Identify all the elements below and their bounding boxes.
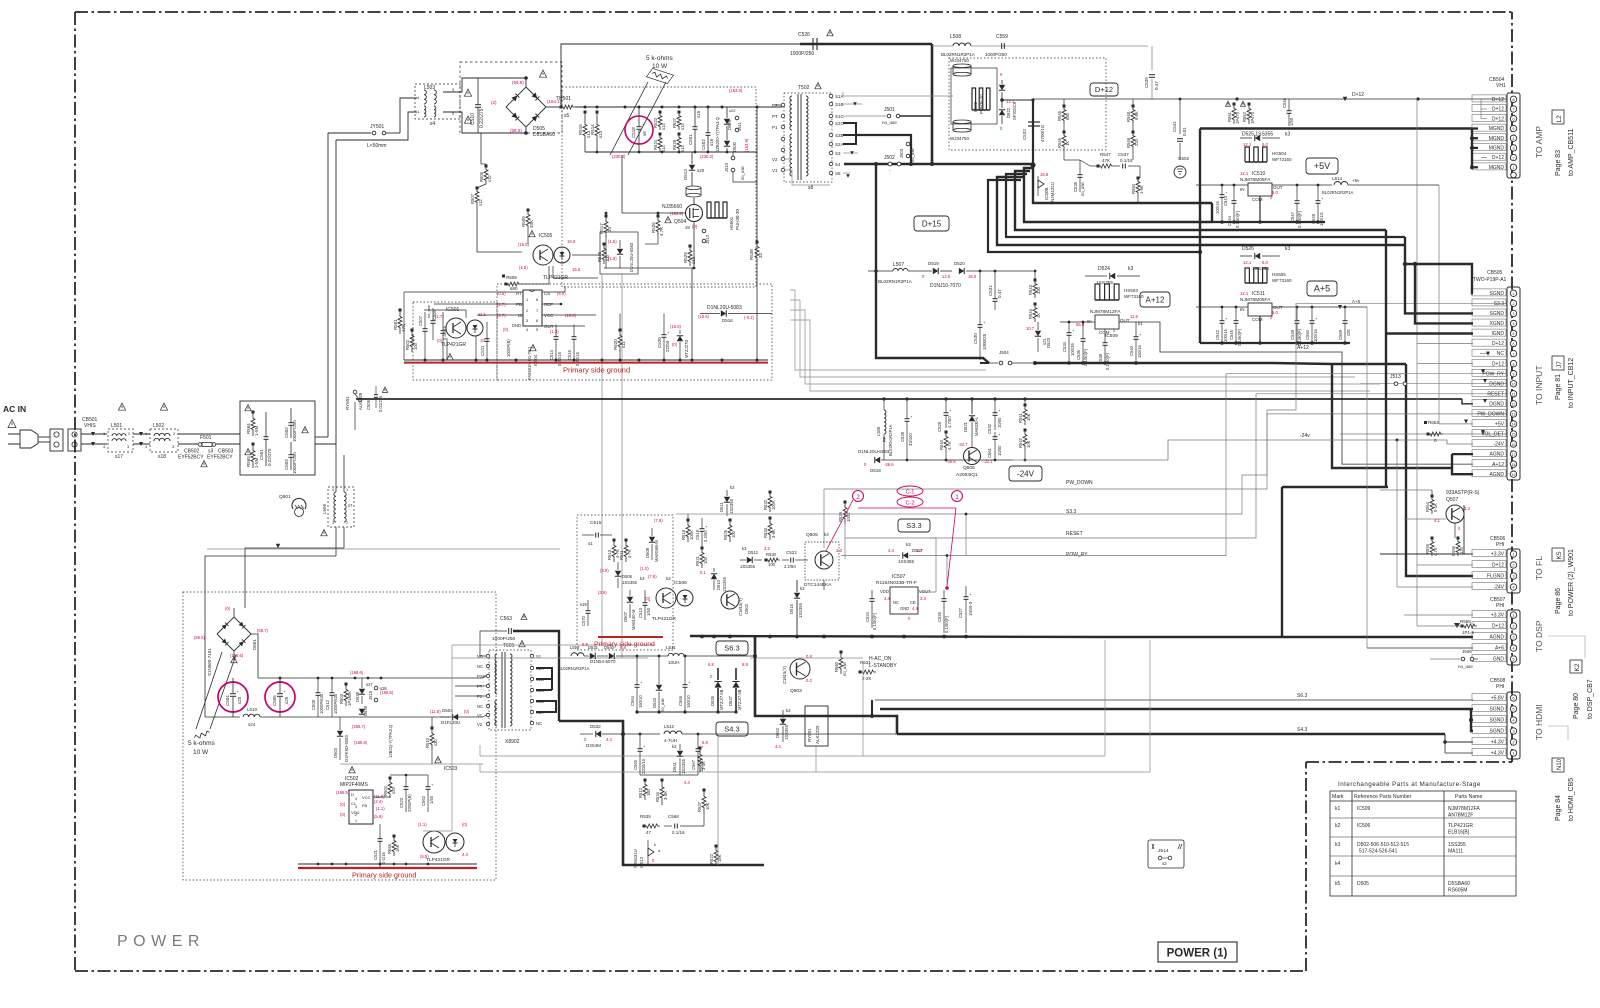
svg-text:NC: NC	[1497, 351, 1505, 357]
svg-text:12.1: 12.1	[1243, 260, 1252, 265]
svg-text:C544: C544	[1227, 215, 1232, 226]
resistor R502 100	[410, 330, 414, 352]
thick bus to bottom	[559, 721, 764, 865]
svg-text:C521: C521	[373, 849, 378, 860]
capacitor C534 100/35	[1067, 332, 1072, 334]
diode D503 D1FK6D-5083	[337, 731, 343, 736]
svg-text:NJM431U: NJM431U	[633, 849, 638, 868]
pin wires IC504	[404, 291, 523, 293]
resistor R511 4.7K	[624, 540, 628, 562]
svg-text:VOUT: VOUT	[919, 589, 931, 594]
capacitor C539 0.47	[1151, 46, 1153, 70]
svg-text:0.1: 0.1	[700, 570, 706, 575]
svg-text:15: 15	[1512, 433, 1516, 437]
svg-text:4.7/50: 4.7/50	[947, 416, 952, 428]
svg-text:3.3: 3.3	[920, 596, 926, 601]
resistor R555 4.7K	[1430, 538, 1434, 556]
svg-text:S6.3: S6.3	[1297, 693, 1308, 699]
svg-text:(5.9): (5.9)	[420, 854, 429, 859]
svg-text:(2): (2)	[491, 100, 497, 105]
svg-text:R514: R514	[590, 124, 595, 135]
thick vertical x876 loop	[876, 164, 989, 363]
magenta link line	[858, 507, 956, 509]
wire A+12 rail	[1060, 321, 1095, 323]
wire thick x623 connects	[621, 732, 625, 736]
staircase net PW_DOWN	[823, 489, 825, 548]
wires S3.3 section	[687, 514, 689, 520]
svg-text:100K: 100K	[689, 530, 694, 540]
svg-text:(1.9): (1.9)	[608, 256, 617, 261]
svg-text:680: 680	[1065, 112, 1070, 120]
cylinder NJ35660	[686, 186, 701, 190]
svg-text:S5: S5	[835, 171, 841, 176]
svg-text:R544: R544	[1028, 308, 1033, 319]
svg-text:(166.6): (166.6)	[380, 690, 394, 695]
capacitor C552 s16	[706, 132, 711, 134]
wire D601 outputs	[233, 608, 235, 617]
dotted box standby section	[183, 592, 496, 880]
thick MGND bus y128 to CB504	[1200, 127, 1472, 129]
svg-text:k5: k5	[1335, 881, 1341, 887]
svg-text:s4: s4	[430, 121, 436, 127]
diode D529 s22	[724, 119, 730, 124]
svg-text:R504: R504	[383, 785, 388, 796]
svg-text:NJM431U: NJM431U	[1050, 182, 1055, 202]
svg-text:+4.3V: +4.3V	[1491, 751, 1505, 757]
svg-text:R513: R513	[607, 549, 612, 560]
svg-text:R551: R551	[1227, 111, 1232, 122]
jumper J503 no_use	[906, 142, 910, 146]
svg-text:5 k-ohms: 5 k-ohms	[188, 740, 215, 747]
svg-text:AC IN: AC IN	[3, 404, 26, 414]
wires V1 V2	[785, 152, 790, 159]
svg-text:R564: R564	[246, 423, 251, 434]
svg-text:(255.7): (255.7)	[352, 724, 366, 729]
svg-text:TLP421GR: TLP421GR	[652, 616, 677, 622]
svg-text:MGND: MGND	[1489, 126, 1505, 132]
resistor R524 s14	[658, 134, 662, 152]
resistor R554 0-1K	[1430, 496, 1434, 514]
capacitor C503 1000P/250	[289, 454, 294, 456]
T502 left pins	[781, 103, 785, 107]
svg-text:10/50: 10/50	[997, 445, 1002, 456]
svg-text:R509: R509	[521, 216, 526, 227]
wires T601 primary	[483, 676, 486, 678]
capacitor C549 100/1G	[1316, 200, 1321, 202]
svg-text:12.1: 12.1	[1240, 171, 1249, 176]
svg-text:R537: R537	[697, 801, 702, 812]
wire S3.3 net	[930, 515, 960, 517]
resistor R519 100K	[686, 520, 690, 542]
svg-text:k: k	[654, 842, 656, 847]
svg-text:C566: C566	[678, 695, 683, 706]
svg-text:SGND: SGND	[1490, 718, 1505, 724]
svg-text:to AMP_CB511: to AMP_CB511	[1568, 129, 1575, 176]
svg-text:C552: C552	[701, 139, 706, 150]
svg-text:680: 680	[510, 286, 518, 291]
svg-text:100/16: 100/16	[1223, 329, 1228, 342]
svg-text:IN: IN	[1240, 307, 1245, 312]
svg-text:D+12: D+12	[1492, 563, 1504, 569]
resistor R549 220	[1131, 132, 1135, 150]
svg-text:TO HDMI: TO HDMI	[1534, 704, 1544, 740]
DGND arrows	[1481, 370, 1485, 374]
svg-text:-32.7: -32.7	[958, 442, 968, 447]
svg-text:(230.3): (230.3)	[700, 154, 714, 159]
svg-text:C514: C514	[549, 349, 554, 360]
svg-text:D533: D533	[652, 697, 657, 708]
resistor R540 4.7K	[944, 432, 948, 452]
capacitor C559 1000P/250	[1001, 43, 1003, 49]
svg-text:EYF52BCY: EYF52BCY	[207, 455, 233, 461]
jumper J501 no_use line	[843, 115, 886, 117]
CB507 pin 2 D+12	[1510, 623, 1516, 629]
svg-text:4.4: 4.4	[462, 852, 468, 857]
svg-text:S4.3: S4.3	[724, 725, 739, 734]
svg-text:3: 3	[1513, 312, 1515, 316]
svg-text:J7: J7	[1556, 361, 1563, 368]
svg-text:(1.1): (1.1)	[418, 822, 427, 827]
boxed label D+15	[914, 216, 949, 231]
svg-text:(0): (0)	[340, 802, 346, 807]
svg-text:NC: NC	[477, 704, 483, 709]
svg-text:s27: s27	[366, 682, 373, 687]
svg-text:Reference Parts Number: Reference Parts Number	[1354, 794, 1412, 800]
resistor R538 33	[755, 242, 759, 262]
capacitor C512 1000P/630	[330, 692, 335, 694]
svg-text:s11: s11	[621, 341, 626, 348]
svg-text:33K: 33K	[529, 220, 534, 228]
svg-text:TLP421GR: TLP421GR	[441, 342, 466, 348]
svg-text:WJ34750: WJ34750	[950, 58, 970, 63]
svg-text:REF: REF	[544, 302, 553, 307]
svg-text:6: 6	[1513, 342, 1515, 346]
resistor R628 s14	[677, 134, 681, 152]
svg-text:D+12: D+12	[1492, 341, 1504, 347]
magenta circle capacitor C505 s25	[265, 682, 295, 712]
svg-text:J510: J510	[724, 162, 729, 172]
svg-text:Primary side ground: Primary side ground	[352, 871, 416, 880]
svg-text:6.8: 6.8	[708, 662, 714, 667]
svg-text:C524: C524	[865, 611, 870, 622]
svg-text:R554: R554	[1425, 501, 1430, 512]
svg-text:L508: L508	[950, 34, 961, 40]
svg-text:-24V: -24V	[1493, 585, 1504, 591]
svg-text:AN78M12F: AN78M12F	[1448, 813, 1473, 819]
svg-text:1ZB200-Y(TPA3.Q: 1ZB200-Y(TPA3.Q	[715, 116, 720, 152]
svg-text:-24V: -24V	[1017, 469, 1035, 478]
svg-text:R655: R655	[387, 843, 392, 854]
wire x757 vertical	[756, 107, 758, 242]
long bus y399	[356, 398, 1462, 400]
wire AC to D601	[205, 556, 336, 618]
svg-text:BL02RN1R2P1A: BL02RN1R2P1A	[878, 279, 912, 284]
resistor R503 1P180K	[344, 684, 348, 706]
resistor R543 330	[1033, 280, 1037, 298]
svg-text:2: 2	[1513, 302, 1515, 306]
svg-text:J504: J504	[999, 350, 1009, 355]
svg-text:4: 4	[355, 797, 357, 801]
nested elbow thin wires left of D+15	[790, 290, 986, 370]
svg-text:3.3: 3.3	[916, 548, 922, 553]
svg-text:2-2K: 2-2K	[862, 676, 872, 681]
svg-text:IC507: IC507	[892, 574, 906, 580]
capacitor C508 1000P/630	[316, 692, 321, 694]
svg-text:C545: C545	[1229, 329, 1234, 340]
gray lines to relay area	[480, 755, 1105, 757]
warning triangle AC	[8, 420, 16, 428]
svg-text:no_use: no_use	[660, 698, 665, 712]
wire S1B stub	[843, 103, 862, 105]
thick S6.3 to S4.3 step bus	[755, 636, 897, 734]
capacitor C529 4.7/50	[944, 412, 949, 414]
svg-text:NC: NC	[536, 721, 542, 726]
connector CB506 body	[1507, 549, 1520, 593]
svg-text:R653: R653	[1428, 420, 1439, 425]
svg-text:12.1: 12.1	[1243, 142, 1252, 147]
transformer L509 s7	[328, 487, 354, 527]
leader lines 5k-ohms	[610, 82, 648, 155]
svg-text:R519: R519	[681, 529, 686, 540]
svg-text:R1154N033B-TR-F: R1154N033B-TR-F	[876, 580, 917, 586]
svg-text:(166.6): (166.6)	[350, 670, 364, 675]
svg-text:517-524-526-541: 517-524-526-541	[1359, 849, 1398, 855]
capacitor C535 no_use	[1078, 174, 1083, 176]
svg-text:C-1: C-1	[906, 490, 915, 496]
svg-text:to DSP_CB7: to DSP_CB7	[1587, 679, 1594, 719]
svg-text:1/50: 1/50	[429, 795, 434, 804]
svg-text:150/10: 150/10	[686, 695, 691, 708]
wire bridge to rail	[546, 106, 561, 108]
svg-text:MTZJ/7.5B: MTZJ/7.5B	[737, 689, 742, 710]
svg-text:R548: R548	[1126, 111, 1131, 122]
svg-text:D601: D601	[252, 639, 257, 650]
dashed box primary switch area	[562, 87, 756, 287]
svg-text:33/100: 33/100	[908, 433, 913, 446]
svg-text:100/35: 100/35	[1070, 343, 1075, 356]
svg-text:no_use: no_use	[740, 166, 745, 180]
svg-text:120: 120	[1459, 546, 1464, 554]
wire IC505 to D509 box	[552, 266, 554, 278]
svg-text:P1: P1	[772, 125, 778, 130]
capacitor C524 0.1/50F	[870, 598, 875, 600]
svg-text:D1NL20U-5083: D1NL20U-5083	[629, 242, 634, 272]
svg-text:L-STANDBY: L-STANDBY	[869, 663, 897, 669]
svg-text:L513: L513	[570, 645, 580, 650]
capacitor C523 2200P(B)	[404, 786, 409, 788]
svg-text:s26: s26	[1346, 329, 1351, 336]
thick MGND vertical x1200	[1199, 129, 1201, 344]
resistor R541 10K	[1023, 405, 1027, 425]
svg-text:-36.6: -36.6	[884, 462, 894, 467]
svg-text:R627: R627	[672, 117, 677, 128]
svg-text:C565: C565	[633, 759, 638, 770]
capacitor C511	[485, 338, 490, 340]
svg-text:1: 1	[346, 488, 348, 492]
svg-text:POWER (1): POWER (1)	[1167, 948, 1228, 960]
diode D539	[359, 709, 365, 714]
svg-text:MA8G6B-M: MA8G6B-M	[654, 540, 659, 562]
svg-text:10K: 10K	[705, 802, 710, 810]
svg-text:D524: D524	[1098, 266, 1110, 272]
jumper J515 s28	[374, 686, 378, 690]
svg-text:1P180K: 1P180K	[347, 691, 352, 706]
ic IC502 MIP2F40MS	[349, 767, 355, 773]
svg-text:D540: D540	[604, 645, 615, 650]
svg-text:S4: S4	[835, 162, 841, 167]
jumper J510 no_use	[731, 156, 735, 160]
svg-text:D1FK6D-5083: D1FK6D-5083	[344, 735, 349, 762]
heatsink H501 PUH38-30	[707, 217, 727, 219]
svg-text:L506: L506	[876, 426, 881, 436]
svg-text:0.2: 0.2	[806, 678, 812, 683]
resistor R501 47K	[398, 310, 402, 334]
CB505 pin 4 XGND	[1510, 320, 1516, 326]
shunt IC512 NJM431U	[648, 848, 654, 856]
T601 left pins	[486, 654, 489, 657]
svg-text:R534: R534	[655, 791, 660, 802]
CB508 pin 3 SGND	[1510, 728, 1516, 734]
svg-text:Page 80: Page 80	[1573, 693, 1580, 719]
svg-text:18: 18	[1512, 463, 1516, 467]
svg-text:MGND: MGND	[1489, 136, 1505, 142]
svg-text:R541: R541	[1018, 412, 1023, 423]
svg-text:(59.0): (59.0)	[510, 128, 522, 133]
resistor R536 3.3K	[698, 748, 702, 772]
svg-text:k3: k3	[906, 542, 911, 547]
svg-text:V1: V1	[772, 168, 778, 173]
svg-text:4.4: 4.4	[884, 596, 890, 601]
diode D515 1SS355	[794, 593, 800, 598]
svg-text:GND: GND	[1493, 657, 1505, 663]
capacitor C550 100/16	[1310, 320, 1315, 322]
optocoupler IC503 TLP421	[435, 757, 441, 763]
svg-text:4.4: 4.4	[684, 780, 690, 785]
svg-text:IC506: IC506	[1357, 823, 1371, 829]
svg-text:D519: D519	[928, 261, 939, 266]
svg-text:4: 4	[332, 488, 334, 492]
svg-text:S2B: S2B	[835, 133, 844, 138]
svg-text:C502: C502	[284, 427, 289, 438]
svg-text:C516: C516	[567, 349, 572, 360]
line-filter L502	[150, 429, 178, 452]
CB505 pin 17 AGND	[1510, 451, 1516, 457]
svg-text:100: 100	[731, 530, 736, 538]
svg-text:R552: R552	[1242, 111, 1247, 122]
svg-text:11: 11	[1512, 393, 1516, 397]
svg-text:J501: J501	[884, 107, 895, 113]
svg-text:s14: s14	[680, 145, 685, 152]
svg-text:0.1/50(F): 0.1/50(F)	[1105, 352, 1110, 370]
capacitor C510 0.22/275	[475, 104, 481, 106]
svg-text:D531: D531	[588, 645, 599, 650]
svg-text:IC506: IC506	[674, 580, 687, 586]
svg-text:COM: COM	[1252, 197, 1263, 202]
svg-text:-24V: -24V	[1493, 442, 1504, 448]
resistor R510 s30	[430, 728, 434, 750]
svg-text:4.4: 4.4	[775, 744, 781, 749]
svg-text:9: 9	[1513, 372, 1515, 376]
svg-text:k3: k3	[1335, 842, 1341, 848]
capacitor C551 s15	[693, 126, 698, 128]
svg-text:SGND: SGND	[1490, 291, 1505, 297]
CB507 pin 3 AGND	[1510, 634, 1516, 640]
svg-text:0.22/16: 0.22/16	[557, 351, 562, 366]
svg-text:1000P/630: 1000P/630	[333, 693, 338, 714]
svg-text:(166.6): (166.6)	[354, 740, 368, 745]
svg-text:R501: R501	[393, 319, 398, 330]
CB507 pin 5 GND	[1510, 656, 1516, 662]
dotted box IC501	[413, 302, 497, 380]
svg-text:4.4: 4.4	[912, 606, 918, 611]
svg-text:NC: NC	[477, 664, 483, 669]
svg-text:HS505: HS505	[1272, 272, 1286, 277]
wire filter out	[315, 436, 328, 438]
diode D533 no_use	[656, 685, 662, 690]
svg-text:R511: R511	[619, 550, 624, 560]
svg-text:19: 19	[1512, 473, 1516, 477]
svg-text:k3: k3	[640, 576, 645, 581]
svg-text:3.2: 3.2	[764, 546, 770, 551]
svg-text:6-8K: 6-8K	[1134, 111, 1139, 120]
svg-text:PW_DOWN: PW_DOWN	[1066, 480, 1093, 486]
jumper J514 s2	[1148, 840, 1184, 868]
svg-text:(3.9): (3.9)	[600, 568, 609, 573]
svg-text:0.01/275: 0.01/275	[378, 395, 383, 412]
svg-text:GND: GND	[512, 323, 521, 328]
svg-text:R545: R545	[1057, 110, 1062, 121]
svg-text:1000P/630: 1000P/630	[319, 693, 324, 714]
CB505 pin 5 IGND	[1510, 330, 1516, 336]
svg-text:C568: C568	[668, 814, 679, 819]
svg-text:33: 33	[758, 252, 763, 258]
svg-text:C505: C505	[272, 695, 277, 706]
svg-text:(5.9): (5.9)	[374, 814, 383, 819]
svg-text:NJM78M12FA: NJM78M12FA	[1090, 309, 1121, 315]
svg-text:R555: R555	[1425, 543, 1430, 554]
svg-text:Page 86: Page 86	[1555, 588, 1562, 614]
CB508 pin 4 SGND	[1510, 717, 1516, 723]
wires IC504 area	[403, 292, 405, 360]
connector CB507 body	[1507, 610, 1520, 665]
wire into L503	[400, 98, 417, 133]
svg-text:6.8: 6.8	[702, 740, 708, 745]
capacitor C531 0.47	[993, 298, 998, 300]
svg-text:+4.3V: +4.3V	[1491, 740, 1505, 746]
svg-text:L511: L511	[666, 645, 676, 650]
diode D509	[617, 249, 623, 254]
box D509 region	[600, 232, 638, 274]
capacitor C505 0.47/16	[441, 330, 446, 332]
svg-text:10 W: 10 W	[193, 749, 209, 756]
svg-text:JY501: JY501	[370, 124, 384, 130]
svg-text:R535: R535	[640, 814, 651, 819]
resistor R564 1.5M	[251, 412, 255, 436]
capacitor C501 0.22/275	[264, 436, 269, 438]
resistor R655 16K	[392, 836, 396, 856]
svg-text:R502: R502	[405, 339, 410, 350]
svg-text:no_use: no_use	[842, 662, 847, 676]
net D+12 vertical x1417	[1416, 99, 1418, 626]
svg-text:C543: C543	[1223, 195, 1228, 206]
svg-text:k3: k3	[1285, 132, 1291, 138]
svg-text:IC505: IC505	[539, 233, 553, 239]
svg-text:NJM78M12FA: NJM78M12FA	[1448, 806, 1480, 812]
svg-text:3-3K: 3-3K	[663, 791, 668, 800]
diode D507 MA8100-M	[627, 597, 633, 602]
svg-text:C529: C529	[937, 421, 942, 432]
svg-text:Page 84: Page 84	[1555, 795, 1562, 821]
